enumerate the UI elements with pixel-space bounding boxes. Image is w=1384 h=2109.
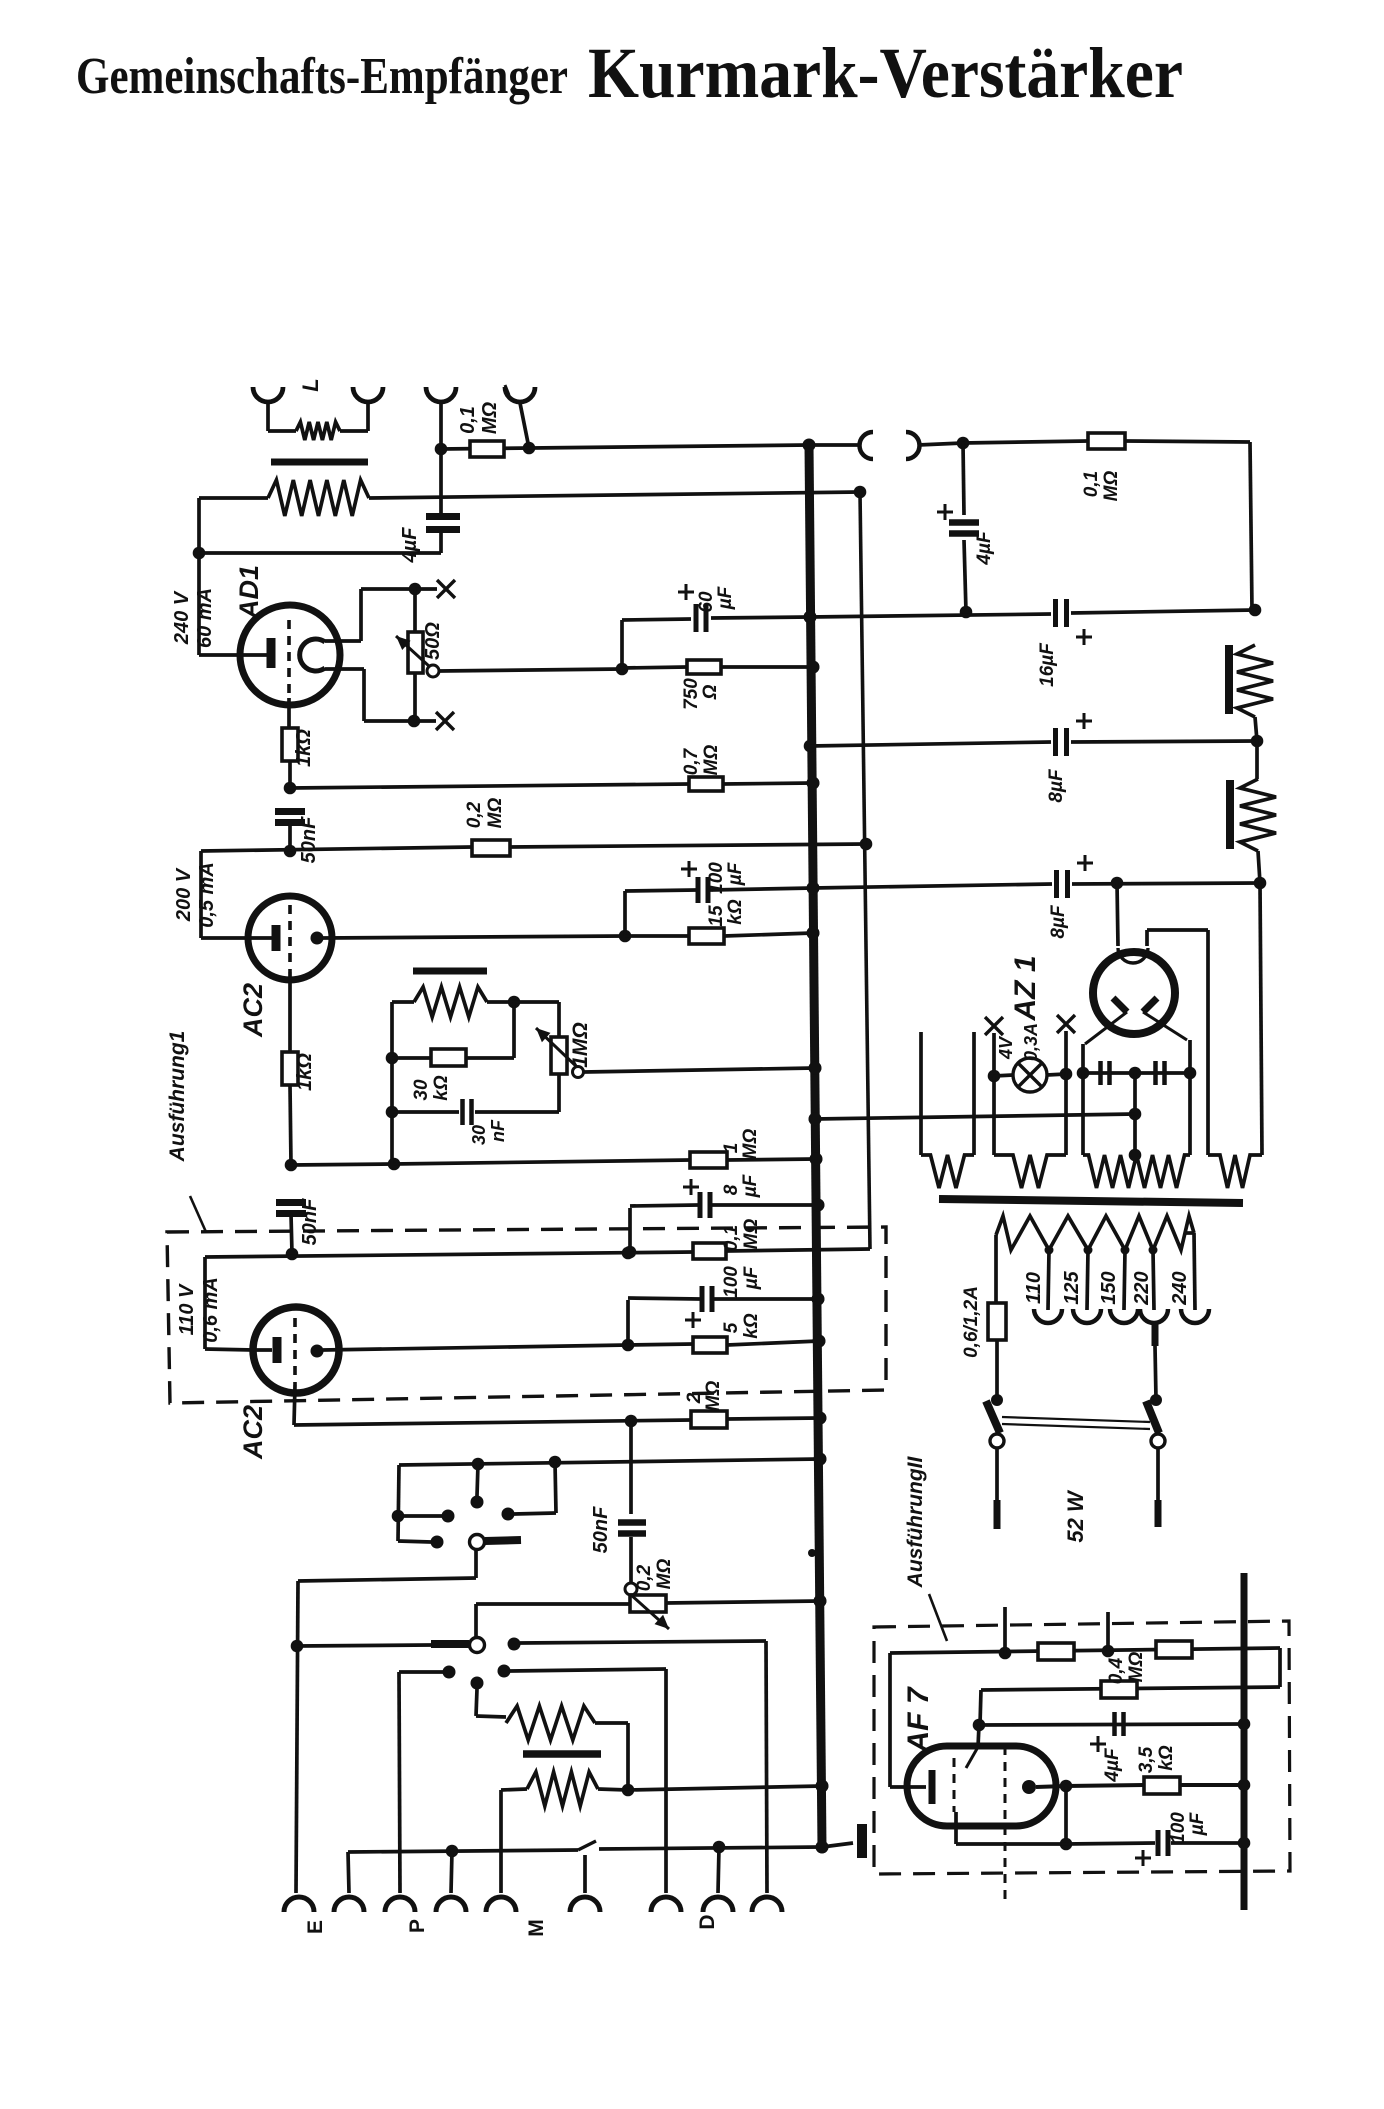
svg-text:Kurmark-Verstärker: Kurmark-Verstärker <box>588 33 1183 113</box>
wire <box>721 665 813 669</box>
wire 110V row <box>205 1252 693 1257</box>
svg-text:MΩ: MΩ <box>1126 1652 1147 1683</box>
node <box>622 1339 635 1352</box>
wire heater top <box>325 639 361 643</box>
mains pin left <box>994 1500 1001 1529</box>
wire <box>888 1653 892 1787</box>
wire <box>520 403 529 448</box>
node <box>804 740 817 753</box>
wire tap3 <box>1124 1250 1125 1310</box>
wire <box>964 540 966 612</box>
winding stub right <box>972 1032 976 1155</box>
label 4uF <box>974 530 995 566</box>
stub <box>1106 1612 1110 1651</box>
svg-text:MΩ: MΩ <box>741 1219 762 1250</box>
wire <box>714 1297 818 1301</box>
wire <box>288 761 292 788</box>
tube AD1 anode bar <box>267 638 276 668</box>
node <box>812 1199 825 1212</box>
label 52W <box>1063 1489 1088 1543</box>
wire <box>599 1847 822 1849</box>
HT winding B <box>1083 1155 1190 1188</box>
wire <box>1133 1073 1137 1155</box>
wire <box>1171 1841 1244 1845</box>
resistor 3,5k <box>1144 1777 1180 1794</box>
svg-text:200 V: 200 V <box>173 867 195 922</box>
node <box>809 1062 822 1075</box>
wire <box>255 936 272 940</box>
node <box>816 1780 829 1793</box>
wire <box>291 1214 292 1254</box>
wire <box>199 551 441 555</box>
label 100uF <box>1168 1811 1208 1844</box>
svg-text:MΩ: MΩ <box>703 1381 724 1412</box>
speaker coil 2 bar <box>1226 780 1234 849</box>
node <box>813 1335 826 1348</box>
capacitor 8uF right2 <box>1057 870 1068 898</box>
node <box>1060 1838 1073 1851</box>
svg-text:0,1: 0,1 <box>457 406 479 434</box>
node <box>957 437 970 450</box>
wire <box>1143 1012 1187 1040</box>
wire <box>723 783 813 784</box>
tube AC2 grid dashed <box>288 905 292 972</box>
label 125 <box>1061 1270 1083 1304</box>
svg-text:240 V: 240 V <box>171 590 193 645</box>
x mark <box>1057 1015 1075 1033</box>
wire <box>398 1514 442 1518</box>
label 0,1 MOhm <box>457 385 509 434</box>
wire <box>399 1672 400 1893</box>
wire <box>348 1850 578 1852</box>
wire <box>1206 930 1210 1155</box>
node small <box>808 1549 816 1557</box>
node <box>854 486 867 499</box>
dashed box Ausfuehrung II <box>874 1621 1290 1874</box>
wire <box>629 1537 633 1583</box>
wire row1 <box>890 1648 1280 1653</box>
wire 2M row <box>294 1420 691 1425</box>
speaker coil 1 <box>1237 645 1273 717</box>
plus <box>683 1179 699 1195</box>
lamp winding A <box>994 1155 1066 1188</box>
svg-text:16µF: 16µF <box>1037 642 1058 687</box>
tube AF7 grid hook <box>966 1747 978 1768</box>
wire <box>361 587 415 591</box>
capacitor 16uF <box>1056 599 1067 627</box>
wire <box>628 1298 700 1299</box>
wire <box>441 445 809 449</box>
wire <box>1188 1040 1192 1073</box>
node <box>1129 1067 1142 1080</box>
node <box>809 1113 822 1126</box>
winding stub left <box>919 1032 923 1155</box>
svg-text:50nF: 50nF <box>590 1506 612 1553</box>
node <box>386 1052 399 1065</box>
svg-text:0,5 mA: 0,5 mA <box>196 862 218 928</box>
node <box>814 1453 827 1466</box>
svg-text:50Ω: 50Ω <box>422 622 444 660</box>
tube AD1 envelope <box>240 605 340 705</box>
wire <box>727 1159 816 1160</box>
tube AZ1 envelope <box>1093 952 1175 1034</box>
resistor 0,7M <box>689 777 723 791</box>
svg-text:kΩ: kΩ <box>725 899 746 925</box>
node <box>472 1458 485 1471</box>
label 0,6mA <box>200 1277 222 1343</box>
rheostat arrow <box>396 636 430 667</box>
node <box>625 1415 638 1428</box>
wire <box>628 1344 693 1345</box>
wire <box>623 891 627 936</box>
label 4uF <box>1102 1747 1123 1783</box>
label 30nF <box>469 1119 508 1145</box>
svg-text:0,6 mA: 0,6 mA <box>200 1277 222 1343</box>
node <box>1045 1246 1054 1255</box>
svg-text:MΩ: MΩ <box>740 1129 761 1160</box>
svg-text:1MΩ: 1MΩ <box>569 1022 592 1068</box>
svg-text:30: 30 <box>411 1079 432 1101</box>
wire <box>413 589 417 632</box>
wire <box>362 669 366 721</box>
wire <box>414 719 436 723</box>
label 0,4 MOhm <box>1106 1652 1147 1685</box>
inductor L winding <box>268 480 369 516</box>
svg-text:125: 125 <box>1061 1270 1083 1304</box>
wire <box>954 1812 958 1844</box>
wire <box>398 1465 399 1541</box>
label fuse <box>961 1286 982 1358</box>
leader line <box>190 1196 206 1232</box>
wire <box>476 1716 506 1717</box>
wire <box>1147 928 1208 932</box>
svg-text:M: M <box>525 1919 548 1937</box>
node <box>386 1106 399 1119</box>
wire <box>369 492 860 498</box>
svg-text:0,3A: 0,3A <box>1021 1023 1041 1061</box>
wire <box>476 1602 630 1606</box>
wire row to bus <box>815 1114 1135 1119</box>
svg-text:nF: nF <box>488 1119 508 1142</box>
wire <box>810 614 1051 617</box>
wire <box>203 1257 207 1349</box>
contact <box>431 1536 444 1549</box>
wire <box>712 1203 818 1207</box>
resistor 750R <box>687 660 721 674</box>
capacitor 50nF third <box>618 1523 646 1534</box>
wire <box>956 1842 1066 1846</box>
label 5kOhm <box>721 1313 762 1339</box>
label 0,1 MOhm <box>1081 471 1122 502</box>
wire <box>1260 883 1262 1155</box>
resistor af7 a <box>1038 1643 1074 1660</box>
wire <box>963 443 964 515</box>
wire <box>1081 1044 1085 1073</box>
svg-text:220: 220 <box>1131 1271 1153 1305</box>
node <box>622 1247 635 1260</box>
wire <box>394 1160 690 1164</box>
label 1kOhm <box>294 1053 316 1091</box>
wire <box>995 1340 999 1399</box>
wire <box>392 1000 414 1004</box>
pot 1M box <box>551 1037 567 1074</box>
node <box>616 663 629 676</box>
terminal 150 <box>1110 1309 1138 1323</box>
node <box>435 443 448 456</box>
svg-text:4µF: 4µF <box>1102 1747 1123 1783</box>
label 4V <box>996 1035 1016 1060</box>
label 0,3A <box>1021 1023 1041 1061</box>
wire <box>297 1645 431 1646</box>
label AZ1 <box>1009 955 1042 1021</box>
contact <box>502 1508 515 1521</box>
wire <box>512 1002 516 1058</box>
wire 200V rail <box>201 847 472 851</box>
wire <box>963 441 1088 443</box>
capacitor 30nF <box>463 1099 472 1125</box>
contact <box>508 1638 521 1651</box>
label AF7 <box>902 1686 935 1753</box>
terminal bottom 1 <box>284 1897 314 1912</box>
wire <box>598 1789 628 1790</box>
wire <box>625 890 696 891</box>
label 0,7 MOhm <box>681 745 722 776</box>
label 110V <box>176 1283 198 1335</box>
wire <box>474 1604 478 1637</box>
wire <box>557 1002 561 1037</box>
title text <box>76 33 1183 113</box>
wire <box>268 429 296 433</box>
lamp circle <box>1013 1058 1047 1092</box>
wire <box>994 1235 998 1303</box>
svg-text:110: 110 <box>1023 1272 1045 1304</box>
wire 8uF row2 <box>813 884 1052 888</box>
switch circle left <box>990 1434 1004 1448</box>
label 240 <box>1169 1271 1191 1305</box>
wire <box>1071 741 1257 742</box>
wire <box>711 617 810 618</box>
wire <box>626 1300 630 1345</box>
capacitor 100uF af7 <box>1158 1830 1168 1856</box>
label 1 MOhm <box>721 1129 761 1160</box>
svg-text:Gemeinschafts-Empfänger: Gemeinschafts-Empfänger <box>76 48 568 105</box>
label Ausfuehrung II <box>904 1456 927 1589</box>
label 2 MOhm <box>684 1381 724 1412</box>
svg-text:L: L <box>298 378 323 391</box>
svg-text:15: 15 <box>706 905 727 927</box>
node <box>812 1293 825 1306</box>
label 60uF <box>696 585 736 612</box>
svg-text:4µF: 4µF <box>399 527 421 564</box>
svg-text:150: 150 <box>1098 1271 1120 1304</box>
label 50R <box>422 622 444 660</box>
pot arrow <box>630 1594 669 1629</box>
svg-text:4µF: 4µF <box>974 530 995 566</box>
wire row3 4uF <box>979 1724 1244 1725</box>
wire <box>625 934 689 938</box>
wire <box>288 823 292 851</box>
wire <box>199 851 203 938</box>
wire <box>918 443 963 445</box>
wire <box>474 1550 478 1578</box>
node <box>1238 1837 1251 1850</box>
wire <box>622 619 691 620</box>
wire <box>1047 1074 1066 1075</box>
wire <box>664 1669 668 1893</box>
tube AC2 second envelope <box>253 1307 339 1393</box>
svg-text:AZ 1: AZ 1 <box>1009 955 1042 1021</box>
main bus <box>809 445 822 1848</box>
wire <box>201 936 255 940</box>
svg-text:AF 7: AF 7 <box>902 1686 935 1753</box>
node <box>1102 1645 1115 1658</box>
wire <box>290 1085 291 1165</box>
node <box>960 606 973 619</box>
wire row2 <box>981 1687 1280 1690</box>
tube AZ1 filament arc <box>1118 948 1148 963</box>
wire <box>390 1002 394 1164</box>
resistor 0,1M third <box>693 1243 726 1259</box>
speaker coil 2 <box>1240 779 1276 851</box>
wire <box>809 443 861 447</box>
tube AZ1 anode left <box>1113 998 1127 1012</box>
svg-text:1: 1 <box>721 1143 742 1154</box>
wire <box>1185 1231 1194 1235</box>
svg-text:µF: µF <box>715 585 736 610</box>
wire <box>557 1074 561 1112</box>
wire <box>439 403 443 449</box>
second bus <box>860 492 870 1249</box>
wire <box>451 1851 452 1893</box>
node <box>816 1841 829 1854</box>
wire <box>501 1789 527 1790</box>
label 220 <box>1131 1271 1153 1305</box>
svg-text:1kΩ: 1kΩ <box>293 729 315 767</box>
node <box>988 1070 1001 1083</box>
label D <box>696 1914 719 1929</box>
svg-text:110 V: 110 V <box>176 1283 198 1335</box>
wire <box>415 587 437 591</box>
label 0,1 MOhm <box>721 1219 762 1252</box>
tube AD1 heater <box>300 639 325 671</box>
wire <box>364 719 414 723</box>
capacitor 50nF second <box>276 1203 306 1214</box>
bus junction dots <box>803 439 829 1854</box>
label 3,5kOhm <box>1136 1745 1177 1773</box>
wire <box>1081 1073 1085 1155</box>
wire <box>1064 1031 1068 1074</box>
node <box>807 661 820 674</box>
node <box>1251 735 1264 748</box>
svg-text:µF: µF <box>1187 1811 1208 1836</box>
svg-text:Ω: Ω <box>700 684 721 700</box>
svg-text:µF: µF <box>740 1173 761 1198</box>
node <box>991 1394 1003 1406</box>
wire <box>510 1669 666 1671</box>
node <box>1060 1780 1073 1793</box>
wire <box>1066 1785 1144 1786</box>
label 8uF <box>721 1173 761 1198</box>
svg-text:240: 240 <box>1169 1271 1191 1305</box>
node <box>193 547 206 560</box>
wire <box>205 1349 253 1350</box>
wire <box>294 1385 295 1425</box>
wire <box>620 620 624 669</box>
wire <box>392 1110 459 1114</box>
wire <box>994 1075 1013 1076</box>
label 8uF <box>1048 904 1069 939</box>
resistor 5k <box>693 1337 727 1353</box>
node <box>392 1510 405 1523</box>
node <box>1184 1067 1197 1080</box>
wire <box>584 1068 815 1072</box>
wire anode <box>1036 1786 1066 1787</box>
node <box>814 1412 827 1425</box>
label 4uF <box>399 527 421 564</box>
label 60mA <box>194 588 216 648</box>
node <box>860 838 873 851</box>
svg-text:Ausführung1: Ausführung1 <box>166 1031 189 1163</box>
leader line <box>929 1594 947 1641</box>
wire <box>413 673 417 721</box>
plus <box>1076 629 1092 645</box>
wire <box>1255 717 1257 741</box>
label 110 <box>1023 1272 1045 1304</box>
transformer primary winding <box>506 1706 595 1740</box>
pot arrow <box>536 1028 578 1068</box>
node <box>284 845 297 858</box>
resistor 0,4M <box>1101 1681 1137 1698</box>
svg-text:30: 30 <box>469 1125 489 1145</box>
wire <box>499 1790 503 1893</box>
wire <box>439 533 443 553</box>
tube grid dashed <box>293 1318 297 1385</box>
node <box>549 1456 562 1469</box>
wire <box>348 1852 349 1893</box>
switch blade right <box>1146 1401 1159 1433</box>
svg-text:100: 100 <box>1168 1812 1189 1844</box>
fuse 0,6/1,2A <box>988 1303 1006 1340</box>
terminal bottom 3 <box>385 1897 415 1912</box>
wire <box>583 1855 587 1893</box>
node <box>1077 1067 1090 1080</box>
node <box>810 1153 823 1166</box>
wire <box>296 1581 298 1893</box>
terminal bottom 8 <box>703 1897 733 1912</box>
svg-text:60: 60 <box>696 591 717 613</box>
wire <box>555 1462 556 1513</box>
heater winding D <box>921 1155 974 1188</box>
terminal bottom 4 <box>436 1897 466 1912</box>
node <box>999 1647 1012 1660</box>
wire <box>1072 883 1260 884</box>
capacitor 60uF <box>696 604 706 632</box>
node <box>409 583 422 596</box>
terminal bottom 5 <box>486 1897 516 1912</box>
node <box>1149 1246 1158 1255</box>
switch link bar <box>1002 1417 1150 1429</box>
label P <box>406 1919 429 1933</box>
wire <box>1145 930 1149 946</box>
wire <box>980 1690 981 1725</box>
wire <box>199 496 268 500</box>
wire <box>477 1464 478 1496</box>
label M <box>525 1919 548 1937</box>
capacitor 4uF af7 <box>1115 1712 1124 1736</box>
coil core bar <box>271 459 368 466</box>
svg-text:8µF: 8µF <box>1048 904 1069 939</box>
svg-text:AusführungII: AusführungII <box>904 1456 927 1589</box>
